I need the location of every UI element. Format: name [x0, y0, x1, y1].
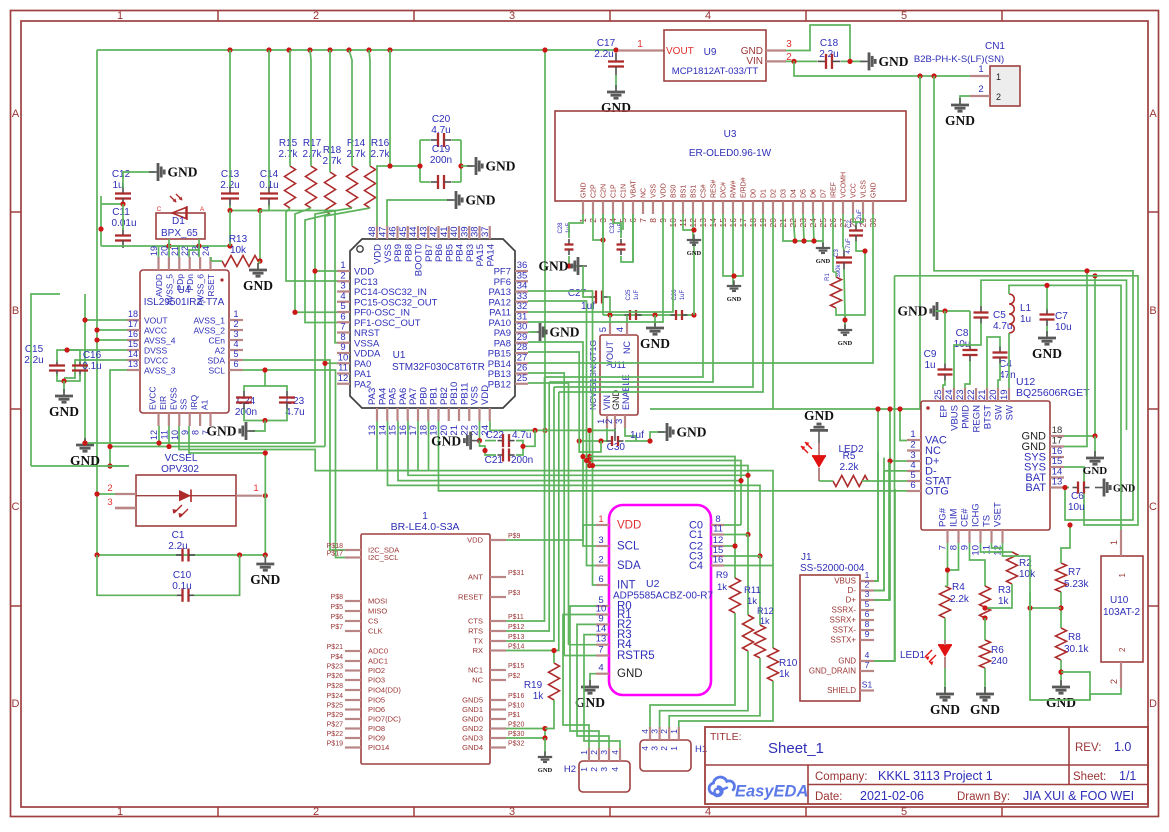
svg-text:11: 11 — [713, 524, 723, 535]
wire charger gnd rail — [935, 310, 970, 312]
pin P$28 BR PIO4(DD) — [345, 689, 361, 691]
pin 28 U3 VCC — [852, 201, 854, 214]
wire C10 loop — [97, 555, 177, 595]
svg-text:D-: D- — [848, 586, 857, 595]
svg-text:CLK: CLK — [368, 627, 383, 636]
svg-text:1: 1 — [1109, 540, 1119, 545]
pin 1 U10 — [1120, 530, 1122, 556]
svg-text:7: 7 — [638, 218, 648, 223]
pin 2 VCSEL — [115, 493, 136, 495]
wire VSET drop — [1003, 548, 1031, 592]
wire C9 riser — [944, 311, 946, 364]
svg-text:R3: R3 — [998, 585, 1011, 596]
wire BR RX — [506, 392, 559, 651]
wire U2 R4 — [569, 644, 597, 646]
wire U1 PB13 to U2 RSTR5 — [528, 373, 564, 656]
wire C24 C23 top bracket — [244, 386, 287, 391]
svg-text:P$19: P$19 — [327, 741, 343, 748]
pin 9 U2 R2 — [596, 623, 609, 625]
wire U12 GND17 riser to rail A — [1064, 271, 1087, 447]
svg-text:AVDD: AVDD — [154, 274, 164, 297]
pin 20 U1 PB2 — [448, 408, 450, 421]
svg-text:20: 20 — [159, 246, 169, 256]
wire C26 right up — [693, 240, 695, 315]
wire J1 gnd right — [874, 489, 895, 661]
svg-text:GND: GND — [945, 113, 975, 128]
pin 24 U4 RSET — [209, 257, 211, 270]
pin P$32 BR GND4 — [490, 746, 506, 748]
svg-text:5: 5 — [901, 806, 907, 818]
wire U2 R2 — [577, 624, 609, 761]
pin P$4 BR ADC1 — [345, 660, 361, 662]
svg-text:Sheet_1: Sheet_1 — [768, 740, 824, 757]
svg-text:21: 21 — [977, 389, 988, 400]
svg-text:GND: GND — [1032, 346, 1062, 361]
svg-text:4: 4 — [233, 339, 238, 349]
pin 6 U4 SCL — [229, 369, 243, 371]
svg-text:13: 13 — [596, 634, 607, 645]
svg-text:6: 6 — [865, 609, 870, 619]
svg-text:ADC0: ADC0 — [368, 647, 388, 656]
svg-text:GND3: GND3 — [462, 734, 483, 743]
sensor U4 ISL29501IRZ-T7A — [140, 270, 229, 413]
wire left gnd rail — [84, 294, 86, 438]
svg-text:C2: C2 — [847, 220, 853, 228]
svg-text:C: C — [157, 206, 162, 213]
pin 17 U4 AVCC — [127, 329, 140, 331]
svg-text:GND: GND — [871, 182, 878, 198]
svg-text:1: 1 — [117, 10, 123, 22]
svg-text:GND: GND — [879, 54, 909, 69]
svg-text:CN1: CN1 — [985, 41, 1005, 52]
pin 6 U3 VBAT — [632, 201, 634, 214]
wire C13C14 net to VSSA — [260, 211, 337, 343]
wire R11 down — [660, 651, 748, 727]
svg-text:ISL29501IRZ-T7A: ISL29501IRZ-T7A — [144, 297, 225, 308]
svg-text:12: 12 — [338, 373, 349, 384]
svg-text:C: C — [1149, 501, 1157, 513]
wire C7 riser — [1046, 285, 1048, 310]
svg-text:8: 8 — [865, 619, 870, 629]
svg-text:16: 16 — [713, 555, 724, 566]
svg-text:S1: S1 — [862, 680, 873, 690]
wire VBUS right drop 2 to charger rail A — [934, 76, 1133, 520]
wire U1 pin15 line — [398, 421, 741, 525]
svg-text:A: A — [200, 206, 205, 213]
pin 7 U2 RSTR5 — [596, 654, 609, 656]
wire C12 top to gnd — [123, 172, 155, 188]
ground under R8 — [1060, 680, 1062, 687]
svg-text:GND: GND — [486, 159, 516, 174]
svg-text:A2: A2 — [215, 346, 226, 356]
svg-text:2.7k: 2.7k — [371, 149, 391, 160]
pin 8 U4 IRQ — [199, 413, 201, 426]
svg-text:3: 3 — [650, 729, 660, 734]
svg-text:B: B — [12, 305, 19, 317]
pin P$22 BR PIO9 — [345, 737, 361, 739]
svg-text:C4: C4 — [999, 359, 1012, 370]
wire U3 pin2 down — [593, 214, 603, 240]
pin 22 U1 PB11 — [468, 408, 470, 421]
pin 5 U11 — [609, 322, 611, 335]
wire D1 anode — [198, 239, 200, 246]
pin 6 J1 SSRX+ — [860, 619, 874, 621]
wire U3 pin20 drop — [772, 214, 774, 409]
svg-text:10u: 10u — [1055, 322, 1072, 333]
ground under R1 C3 — [844, 324, 846, 330]
svg-text:C5: C5 — [993, 310, 1006, 321]
pin 1 U12 VAC — [907, 439, 921, 441]
svg-text:2.2k: 2.2k — [950, 594, 970, 605]
svg-text:AVSS_2: AVSS_2 — [193, 326, 225, 336]
svg-text:KKKL 3113 Project 1: KKKL 3113 Project 1 — [878, 769, 993, 783]
wire U3 pin19 drop to RX — [559, 214, 763, 392]
svg-text:REGN: REGN — [972, 405, 983, 433]
wire U4 pin19 up — [158, 246, 160, 257]
svg-text:P$14: P$14 — [508, 644, 524, 651]
svg-text:NC: NC — [622, 341, 632, 354]
pin 2 CN1 — [970, 95, 990, 97]
svg-text:R14: R14 — [347, 138, 366, 149]
svg-text:4.7u: 4.7u — [512, 430, 531, 441]
ground under R6 — [984, 687, 986, 694]
pin 8 U3 VSS — [652, 201, 654, 214]
svg-text:200n: 200n — [511, 455, 533, 466]
svg-text:PIO9: PIO9 — [368, 734, 385, 743]
pin 12 U2 C2 — [711, 545, 724, 547]
wire R8 bottom — [1060, 660, 1062, 686]
svg-text:U10: U10 — [1110, 595, 1129, 606]
svg-text:GND: GND — [250, 572, 280, 587]
pin 1 H2 — [588, 748, 590, 761]
pin 23 U4 AVSS_6 — [199, 257, 201, 270]
svg-text:P$27: P$27 — [327, 722, 343, 729]
logo EasyEDA — [709, 777, 808, 800]
wire charger rail B — [895, 276, 1139, 525]
wire VIN down to CN1 rail — [794, 61, 970, 76]
pin 17 U12 GND — [1050, 445, 1064, 447]
pin 8 U1 VSSA — [337, 342, 350, 344]
pin P$15 BR NC1 — [490, 669, 506, 671]
svg-text:1: 1 — [978, 64, 983, 75]
svg-text:14: 14 — [128, 349, 138, 359]
svg-text:IRQ: IRQ — [189, 395, 199, 411]
svg-text:19: 19 — [999, 389, 1010, 400]
svg-text:P$22: P$22 — [327, 731, 343, 738]
svg-text:4.7uF: 4.7uF — [846, 238, 852, 254]
svg-text:7: 7 — [598, 645, 603, 656]
wire R19 top — [553, 651, 555, 664]
svg-text:DVSS: DVSS — [144, 346, 167, 356]
pin 9 U4 SS — [189, 413, 191, 426]
svg-text:13: 13 — [1052, 477, 1063, 488]
svg-text:1: 1 — [579, 750, 589, 755]
pin P$11 BR CTS — [490, 620, 506, 622]
svg-text:P$30: P$30 — [508, 731, 524, 738]
wire C11 mid — [122, 204, 124, 230]
pin 3 H1 — [658, 727, 660, 740]
svg-text:P$26: P$26 — [327, 673, 343, 680]
svg-text:AVSS_5: AVSS_5 — [164, 274, 174, 306]
pin 3 U3 C2N — [602, 201, 604, 214]
ground left rail — [84, 438, 86, 444]
svg-text:SDA: SDA — [617, 560, 641, 572]
wire R6 bottom — [984, 668, 986, 693]
pin 1 U3 GND — [582, 201, 584, 214]
wire DVSS to C15 C16 — [67, 349, 127, 351]
svg-text:D1: D1 — [172, 216, 185, 227]
pin 12 U4 EVCC — [157, 413, 159, 426]
svg-text:GND: GND — [49, 404, 79, 419]
pin 2 U11 — [614, 415, 616, 428]
svg-text:P$10: P$10 — [508, 703, 524, 710]
pin 39 U1 PB3 — [468, 226, 470, 239]
ground under C25 C26 — [654, 315, 656, 327]
svg-text:U9: U9 — [704, 47, 717, 58]
svg-text:GND: GND — [617, 668, 643, 680]
svg-text:R/W#: R/W# — [731, 180, 738, 198]
svg-text:SS: SS — [179, 398, 189, 410]
svg-text:1k: 1k — [998, 596, 1010, 607]
pin 4 U12 D- — [907, 470, 921, 472]
svg-text:C30: C30 — [607, 442, 626, 453]
pin 48 U1 VDD — [376, 226, 378, 239]
wire U3 pin29 down — [856, 214, 863, 222]
svg-text:Sheet:: Sheet: — [1073, 771, 1106, 783]
pin 9 U12 CE# — [968, 530, 970, 543]
svg-text:3: 3 — [598, 535, 603, 546]
svg-text:P$31: P$31 — [508, 570, 524, 577]
svg-text:5: 5 — [901, 10, 907, 22]
svg-text:200n: 200n — [235, 407, 257, 418]
wire U4 pins20-23 to D1 — [168, 246, 170, 257]
pin P$18 BR I2C_SDA — [345, 549, 361, 551]
svg-text:C10: C10 — [173, 570, 192, 581]
ground of U1 VSS — [447, 199, 456, 201]
svg-text:2: 2 — [1118, 647, 1127, 652]
svg-text:P$6: P$6 — [331, 614, 344, 621]
svg-text:GND: GND — [243, 278, 273, 293]
pin 23 U3 D5 — [802, 201, 804, 214]
wire C15C16 gnd drop — [63, 381, 65, 395]
pin 5 U12 STAT — [907, 480, 921, 482]
pin 16 U4 AVSS_4 — [127, 339, 140, 341]
svg-text:GND: GND — [898, 304, 928, 319]
wire bus left drop — [96, 50, 98, 555]
pin P$14 BR RX — [490, 649, 506, 651]
ground under CN1 — [959, 98, 961, 105]
svg-text:INT: INT — [617, 580, 636, 592]
svg-text:D3: D3 — [781, 189, 788, 198]
wire U12 ILIM drop — [948, 543, 959, 570]
svg-text:P$29: P$29 — [327, 712, 343, 719]
svg-text:23: 23 — [955, 389, 966, 400]
svg-text:C21: C21 — [485, 455, 504, 466]
svg-text:2.7k: 2.7k — [279, 149, 299, 160]
svg-text:2: 2 — [978, 84, 983, 95]
svg-text:RX: RX — [473, 646, 483, 655]
wire U2 RSTR5 — [564, 655, 596, 657]
svg-text:ICHG: ICHG — [971, 503, 982, 527]
pin 30 U1 PA9 — [515, 331, 528, 333]
io-expander U2 ADP5585ACBZ-00-R7 — [609, 505, 711, 695]
svg-text:200n: 200n — [430, 155, 452, 166]
svg-text:REV:: REV: — [1075, 742, 1101, 754]
svg-text:VOUT: VOUT — [666, 46, 694, 57]
svg-text:GND: GND — [838, 657, 856, 666]
svg-text:R7: R7 — [1068, 567, 1081, 578]
svg-text:D0: D0 — [751, 189, 758, 198]
pin 28 U1 PB15 — [515, 352, 528, 354]
svg-text:1: 1 — [233, 309, 238, 319]
wire R3 to R6 — [984, 618, 986, 640]
svg-text:PIO7(DC): PIO7(DC) — [368, 715, 401, 724]
svg-text:5: 5 — [233, 349, 238, 359]
wire C9 bottom — [943, 380, 945, 388]
svg-text:GND: GND — [1083, 465, 1108, 477]
wire gnd vertical to charger rail B — [874, 276, 895, 661]
wire U2 gnd — [590, 674, 596, 686]
wire C2 bottom to gnd rail — [845, 241, 865, 315]
svg-text:5.23k: 5.23k — [1064, 579, 1089, 590]
pin 43 U1 PB7 — [427, 226, 429, 239]
pin 30 U3 GND — [872, 201, 874, 214]
svg-text:GND1: GND1 — [462, 705, 483, 714]
svg-text:C9: C9 — [924, 349, 937, 360]
svg-text:12: 12 — [149, 430, 159, 440]
wire VDD top bus — [97, 49, 616, 51]
svg-text:1uF: 1uF — [680, 289, 686, 300]
wire U2 R0 — [570, 606, 599, 761]
svg-text:GND: GND — [970, 702, 1000, 717]
svg-text:R13: R13 — [229, 234, 248, 245]
svg-text:SS-52000-004: SS-52000-004 — [800, 563, 865, 574]
pin 32 U1 PA11 — [515, 311, 528, 313]
pin 8 U12 ILIM — [957, 530, 959, 543]
svg-text:VCC: VCC — [851, 183, 858, 198]
svg-text:4: 4 — [705, 806, 711, 818]
pin 7 U3 NC — [642, 201, 644, 214]
wire U1 PB15 to C30 rail — [528, 352, 579, 441]
wire C8 riser — [969, 311, 971, 344]
svg-text:GND: GND — [816, 258, 831, 265]
svg-text:1: 1 — [117, 806, 123, 818]
pin 47 U1 VSS — [386, 226, 388, 239]
wire mid column x589 — [589, 430, 591, 465]
svg-text:B2B-PH-K-S(LF)(SN): B2B-PH-K-S(LF)(SN) — [914, 54, 1004, 65]
ground right of C12 — [149, 171, 158, 173]
wire U3 pin3 drop — [602, 214, 604, 315]
ground under LED1 — [944, 687, 946, 694]
wire J1 vbus up — [874, 453, 878, 581]
svg-text:SSRX+: SSRX+ — [830, 616, 857, 625]
pin 10 U3 BS0 — [672, 201, 674, 214]
pin 42 U1 PB6 — [437, 226, 439, 239]
svg-text:25: 25 — [933, 389, 944, 400]
wire R9 down to H1 — [650, 613, 735, 727]
pin 24 U1 VDD — [489, 408, 491, 421]
wire U11 gnd down — [614, 428, 616, 441]
svg-text:P$21: P$21 — [327, 644, 343, 651]
svg-text:GND: GND — [575, 695, 605, 710]
pin 5 U1 PF0-OSC_IN — [337, 311, 350, 313]
svg-text:BAT: BAT — [1025, 482, 1046, 494]
pin 26 U3 IREF — [832, 201, 834, 214]
ground under gnd riser — [1094, 436, 1096, 458]
svg-text:R18: R18 — [323, 145, 342, 156]
pin 10 U1 PA0 — [337, 362, 350, 364]
wire R19 bottom — [545, 700, 554, 729]
wire VOUT pin18 — [85, 319, 127, 321]
wire AVCC rail — [97, 329, 127, 331]
pin 5 U4 SDA — [229, 359, 243, 361]
svg-text:PIO5: PIO5 — [368, 696, 385, 705]
pin 13 U4 AVSS_3 — [127, 369, 140, 371]
wire U3 pin28 to C2 — [853, 214, 856, 225]
wire U3 pin9 to U1 PA10 — [528, 214, 663, 322]
wire line y460 to C0 riser — [590, 461, 742, 481]
wire U11 pin5 up — [609, 315, 611, 322]
svg-text:D: D — [1149, 698, 1157, 710]
pin 5 U2 R0 — [596, 605, 609, 607]
wire C27 net — [607, 297, 610, 315]
svg-text:U2: U2 — [646, 578, 660, 590]
svg-text:2: 2 — [313, 10, 319, 22]
wire J1 pin2 riser to D- — [874, 471, 884, 591]
svg-text:1: 1 — [1118, 572, 1127, 577]
wire R4 bottom to LED1 — [944, 618, 946, 640]
wire C5 bottom to VBUS pin — [954, 323, 981, 388]
pin P$25 BR PIO6 — [345, 708, 361, 710]
svg-text:D6: D6 — [811, 189, 818, 198]
wire C28 down — [569, 256, 583, 266]
svg-text:PIO2: PIO2 — [368, 666, 385, 675]
svg-text:3: 3 — [107, 497, 112, 508]
pin 11 U12 TS — [990, 530, 992, 543]
pin P$16 BR GND5 — [490, 699, 506, 701]
wire C19 C20 bracket — [419, 140, 421, 182]
ground flag charger left — [937, 310, 946, 312]
wire J1 pin1 riser to y409 line — [874, 409, 878, 581]
svg-text:PG#: PG# — [938, 507, 949, 527]
pin 23 U1 VSS — [478, 408, 480, 421]
svg-text:ANT: ANT — [468, 573, 483, 582]
regulator U9 MCP1812AT-033/TT — [664, 30, 766, 81]
pin 24 U12 VBUS — [953, 388, 955, 401]
svg-text:PB12: PB12 — [488, 379, 511, 390]
svg-text:J1: J1 — [801, 552, 812, 563]
svg-text:AVSS_4: AVSS_4 — [144, 336, 176, 346]
wire VBUS right drop 1 — [650, 76, 920, 409]
wire LED1 to gnd — [944, 668, 946, 693]
pin P$5 BR MISO — [345, 610, 361, 612]
pin 1 U4 AVSS_1 — [229, 319, 243, 321]
svg-text:10k: 10k — [230, 245, 247, 256]
pin 27 U1 PB14 — [515, 362, 528, 364]
wire VCSEL pin2 — [97, 493, 115, 495]
svg-text:3: 3 — [599, 750, 609, 755]
pin 1 H1 — [678, 727, 680, 740]
svg-text:NC1: NC1 — [468, 666, 483, 675]
wire R8 tap to U10 bottom — [1061, 672, 1090, 700]
pin P$7 BR CLK — [345, 630, 361, 632]
svg-text:3: 3 — [599, 767, 609, 772]
wire C8 bottom — [965, 361, 970, 388]
pin 1 J1 VBUS — [860, 580, 874, 582]
svg-text:1u: 1u — [112, 180, 123, 191]
pin P$8 BR MOSI — [345, 600, 361, 602]
svg-text:GND: GND — [687, 250, 702, 257]
